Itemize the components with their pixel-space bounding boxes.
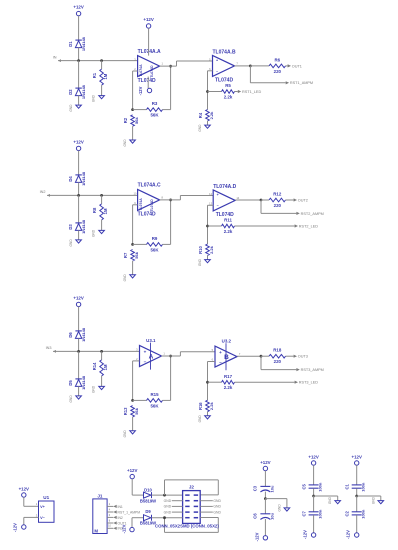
junction (C1/C2 node) bbox=[355, 495, 358, 498]
capacitor C1 100n bbox=[345, 465, 366, 496]
svg-text:1M: 1M bbox=[103, 73, 108, 79]
svg-text:D3: D3 bbox=[68, 224, 73, 230]
svg-text:A: A bbox=[149, 354, 154, 361]
power flag +12V (C3) bbox=[260, 460, 270, 471]
svg-text:100n: 100n bbox=[361, 509, 366, 519]
svg-text:V+: V+ bbox=[40, 505, 46, 509]
ground (C5/C7 node) bbox=[314, 496, 341, 504]
op-amp TL074A.C bbox=[138, 183, 161, 218]
svg-text:C6: C6 bbox=[253, 513, 258, 519]
node GND (J2 right pin 3) bbox=[200, 505, 221, 509]
wire (+12V to D10) bbox=[132, 479, 143, 495]
junction (output node TL074A.D) bbox=[260, 199, 263, 202]
svg-text:1N4148: 1N4148 bbox=[81, 327, 86, 342]
svg-text:D10: D10 bbox=[144, 487, 152, 492]
svg-text:−: − bbox=[217, 204, 219, 208]
svg-text:TL074D: TL074D bbox=[150, 199, 154, 212]
power flag +12V (U1 supply) bbox=[19, 487, 29, 498]
svg-text:RST2_LED: RST2_LED bbox=[299, 224, 318, 228]
node OUT2 bbox=[294, 198, 308, 202]
svg-text:B: B bbox=[224, 354, 229, 361]
ground (below R4) bbox=[198, 124, 210, 132]
resistor R17 2.2k bbox=[208, 374, 295, 390]
svg-text:R11: R11 bbox=[224, 218, 232, 223]
junction (R input node row 3) bbox=[100, 350, 103, 353]
power flag +12V (J2 feed) bbox=[127, 468, 137, 479]
junction (feedback node row 2) bbox=[131, 243, 134, 246]
svg-text:56k: 56k bbox=[134, 407, 139, 414]
svg-text:J2: J2 bbox=[189, 485, 195, 490]
junction (output node U3.2) bbox=[260, 355, 263, 358]
svg-text:RST_1_AMPM: RST_1_AMPM bbox=[118, 510, 141, 514]
svg-text:8: 8 bbox=[161, 195, 163, 199]
ic U1 bbox=[39, 495, 55, 522]
svg-text:R3: R3 bbox=[152, 101, 158, 106]
svg-text:RST2_AMPM: RST2_AMPM bbox=[301, 212, 324, 216]
svg-text:GND: GND bbox=[198, 124, 202, 132]
svg-text:10u: 10u bbox=[270, 512, 275, 519]
wire (top loop to J2 pin 2) bbox=[165, 480, 219, 495]
svg-text:TL074A: TL074A bbox=[139, 64, 143, 77]
svg-text:RST3_LED: RST3_LED bbox=[299, 381, 318, 385]
connector J1 bbox=[93, 493, 107, 533]
svg-text:-12V: -12V bbox=[254, 532, 259, 541]
svg-text:1M: 1M bbox=[103, 364, 108, 370]
wire (feedback to output row 1) bbox=[170, 66, 172, 110]
node input wire (row 1) bbox=[53, 55, 138, 62]
svg-text:2.2k: 2.2k bbox=[209, 111, 214, 120]
junction (LED tap row 2) bbox=[206, 225, 209, 228]
svg-text:1N4148: 1N4148 bbox=[81, 219, 86, 234]
junction (LED tap row 1) bbox=[206, 90, 209, 93]
svg-text:R15: R15 bbox=[150, 392, 159, 397]
ground (below R7) bbox=[123, 274, 135, 282]
node GND (J2 left pin 2) bbox=[164, 499, 183, 503]
ground (C3/C6 node) bbox=[265, 499, 289, 512]
svg-text:C7: C7 bbox=[302, 510, 307, 516]
ground (below R16) bbox=[198, 415, 210, 423]
pin numbers TL074A.D bbox=[209, 192, 240, 206]
wire (-12V to U1 V-) bbox=[24, 513, 39, 525]
resistor R5 2.2k bbox=[208, 83, 238, 99]
svg-text:1M: 1M bbox=[103, 208, 108, 214]
wire (feedback to output row 2) bbox=[170, 200, 172, 245]
svg-text:GND: GND bbox=[123, 274, 127, 282]
svg-text:+12V: +12V bbox=[127, 468, 137, 473]
svg-text:+12V: +12V bbox=[352, 454, 362, 459]
svg-text:D1: D1 bbox=[68, 41, 73, 47]
power flag +12V (C1) bbox=[352, 454, 362, 465]
svg-text:V−: V− bbox=[40, 516, 46, 520]
svg-text:D9: D9 bbox=[145, 509, 151, 514]
svg-text:GND: GND bbox=[92, 385, 96, 393]
svg-text:−: − bbox=[219, 360, 222, 365]
resistor R8 1M bbox=[92, 195, 108, 230]
node RST3_LED bbox=[295, 381, 319, 385]
svg-text:TL074A: TL074A bbox=[139, 198, 143, 211]
svg-text:+12V: +12V bbox=[143, 17, 153, 22]
svg-text:10: 10 bbox=[134, 191, 137, 195]
svg-text:R14: R14 bbox=[92, 362, 97, 370]
svg-text:-12V: -12V bbox=[303, 530, 308, 539]
svg-text:RST3_AMPM: RST3_AMPM bbox=[301, 368, 324, 372]
node input wire (row 2) bbox=[40, 190, 138, 197]
resistor R14 1M bbox=[92, 351, 108, 386]
op-amp TL074A.B bbox=[213, 49, 236, 83]
svg-text:C2: C2 bbox=[345, 510, 350, 516]
wire (+12V to U1 V+) bbox=[24, 497, 39, 506]
wire (inverting input TL074A.D) bbox=[208, 205, 214, 244]
ground (below R13) bbox=[123, 430, 135, 438]
wire (feedback to output row 3) bbox=[170, 356, 172, 400]
resistor R10 2.2k bbox=[198, 244, 214, 260]
svg-text:R17: R17 bbox=[224, 374, 233, 379]
svg-text:3: 3 bbox=[36, 513, 38, 517]
svg-text:R8: R8 bbox=[92, 207, 97, 213]
svg-text:RST1_AMPM: RST1_AMPM bbox=[290, 81, 313, 85]
junction (feedback node row 3) bbox=[131, 399, 134, 402]
node RST1_LED bbox=[238, 90, 262, 94]
resistor R7 56k bbox=[123, 250, 139, 275]
svg-text:56K: 56K bbox=[150, 247, 159, 252]
connector J2 pins bbox=[185, 495, 198, 518]
wire (U3.1 output to U3.2 input) bbox=[162, 352, 216, 356]
wire (TL074A.C output to TL074A.D input) bbox=[160, 196, 214, 200]
diode D3 1N4148 bbox=[68, 195, 86, 240]
wire (D9 to J2 pin 9) bbox=[152, 517, 183, 519]
svg-text:GND: GND bbox=[164, 499, 172, 503]
svg-text:IN: IN bbox=[53, 55, 57, 59]
svg-text:10u: 10u bbox=[270, 485, 275, 492]
svg-text:R6: R6 bbox=[274, 57, 280, 62]
svg-text:TL074A.A: TL074A.A bbox=[138, 49, 161, 55]
ground (C1/C2 node) bbox=[357, 496, 384, 504]
svg-text:-12V: -12V bbox=[121, 524, 126, 533]
pin numbers TL074A.C bbox=[134, 191, 164, 205]
op-amp TL074A.D bbox=[213, 184, 236, 218]
resistor R2 56k bbox=[123, 115, 139, 140]
power flag -12V (C6) bbox=[254, 532, 267, 541]
svg-text:D6: D6 bbox=[68, 332, 73, 338]
node RST1_AMPM bbox=[286, 81, 313, 85]
diode D4 1N4148 bbox=[68, 171, 86, 195]
junction (D clamp node row 3) bbox=[77, 350, 80, 353]
resistor R12 220 bbox=[261, 191, 294, 208]
power flag -12V (C7) bbox=[303, 530, 316, 539]
svg-text:GND: GND bbox=[69, 395, 73, 403]
wire (TL074A.A output to TL074A.B input) bbox=[160, 61, 213, 66]
junction (D10 node) bbox=[163, 494, 166, 497]
node GND (J2 left pin 4) bbox=[164, 510, 183, 514]
node GND (J2 right pin 4) bbox=[200, 510, 221, 514]
svg-text:−: − bbox=[144, 360, 147, 365]
svg-text:U3.1: U3.1 bbox=[146, 338, 156, 343]
ground (below R1) bbox=[92, 94, 105, 102]
svg-text:TL074D: TL074D bbox=[150, 65, 154, 78]
svg-text:10: 10 bbox=[108, 525, 111, 528]
svg-text:TL074D: TL074D bbox=[138, 212, 156, 218]
power flag -12V (op-amp U2.A supply) bbox=[138, 77, 152, 96]
wire (D10 to J2 pin 1) bbox=[152, 494, 183, 496]
node RST_1_AMPM (J1 pin 4) bbox=[107, 508, 140, 514]
svg-text:+: + bbox=[217, 193, 219, 197]
svg-text:TL074A.C: TL074A.C bbox=[138, 183, 161, 189]
resistor R18 220 bbox=[261, 348, 294, 365]
svg-text:GND: GND bbox=[92, 229, 96, 237]
junction (D9 node) bbox=[163, 516, 166, 519]
resistor R4 2.2k bbox=[198, 110, 214, 126]
op-amp TL074A.A bbox=[138, 49, 161, 84]
junction (output node TL074A.A) bbox=[169, 65, 172, 68]
svg-text:GND: GND bbox=[328, 496, 332, 504]
svg-text:IN1: IN1 bbox=[118, 505, 123, 509]
ground (below D3) bbox=[69, 239, 81, 247]
junction (C5/C7 node) bbox=[312, 495, 315, 498]
svg-text:100n: 100n bbox=[361, 482, 366, 492]
svg-text:4: 4 bbox=[109, 508, 111, 511]
power flag +12V (op-amp U2.A supply) bbox=[143, 17, 153, 56]
diode D5 1N4148 bbox=[68, 351, 86, 396]
svg-text:-12V: -12V bbox=[346, 530, 351, 539]
svg-text:CONN_05X2SMD (CONN_05X2): CONN_05X2SMD (CONN_05X2) bbox=[155, 524, 219, 529]
capacitor C2 100n bbox=[345, 496, 366, 533]
ground (below R10) bbox=[198, 258, 210, 266]
svg-text:C1: C1 bbox=[345, 483, 350, 489]
label CONN_05X2SMD bbox=[155, 524, 219, 529]
svg-text:1N4148: 1N4148 bbox=[81, 84, 86, 99]
wire (inverting input U3.2) bbox=[208, 362, 216, 401]
svg-text:GND: GND bbox=[123, 139, 127, 147]
resistor R3 56K bbox=[133, 101, 171, 118]
wire (AMPM branch row 3) bbox=[261, 356, 296, 369]
svg-text:1N4148: 1N4148 bbox=[81, 171, 86, 186]
svg-text:6: 6 bbox=[109, 514, 111, 517]
svg-text:GND: GND bbox=[198, 415, 202, 423]
svg-text:OUT3: OUT3 bbox=[298, 355, 308, 359]
svg-text:GND: GND bbox=[213, 499, 221, 503]
svg-text:R18: R18 bbox=[273, 348, 282, 353]
svg-text:7: 7 bbox=[239, 352, 241, 356]
capacitor C7 100n bbox=[302, 496, 323, 533]
ground (below D5) bbox=[69, 395, 81, 403]
pin numbers U3.1 bbox=[136, 348, 165, 362]
node RST2_LED bbox=[295, 224, 319, 228]
power flag -12V (U1 supply) bbox=[13, 523, 26, 532]
svg-text:R9: R9 bbox=[152, 236, 158, 241]
svg-text:R12: R12 bbox=[273, 191, 282, 196]
svg-text:R16: R16 bbox=[198, 402, 203, 410]
svg-text:U3.2: U3.2 bbox=[222, 339, 232, 344]
svg-text:C5: C5 bbox=[302, 483, 307, 489]
pin numbers TL074A.B bbox=[209, 57, 238, 71]
diode D6 1N4148 bbox=[68, 327, 86, 351]
power flag -12V (C2) bbox=[346, 530, 359, 539]
svg-text:R10: R10 bbox=[198, 245, 203, 253]
svg-text:220: 220 bbox=[274, 203, 282, 208]
op-amp U3.2 bbox=[215, 339, 237, 371]
junction (R input node row 1) bbox=[100, 59, 103, 62]
svg-text:OUT2: OUT2 bbox=[298, 198, 308, 202]
svg-text:M: M bbox=[94, 528, 98, 533]
svg-text:R2: R2 bbox=[123, 117, 128, 123]
svg-text:100n: 100n bbox=[318, 509, 323, 519]
svg-text:IN2: IN2 bbox=[40, 190, 46, 194]
svg-text:56k: 56k bbox=[134, 116, 139, 123]
svg-text:RST1_LED: RST1_LED bbox=[242, 90, 261, 94]
node OUT1 (J1 pin 8) bbox=[107, 519, 127, 525]
wire (inverting input TL074A.C) bbox=[133, 205, 138, 245]
junction (output node U3.1) bbox=[169, 355, 172, 358]
power flag -12V (J2 feed) bbox=[121, 518, 134, 534]
svg-text:+: + bbox=[216, 59, 218, 63]
diode D2 1N4148 bbox=[68, 61, 86, 106]
svg-text:GND: GND bbox=[164, 505, 172, 509]
svg-text:GND: GND bbox=[69, 239, 73, 247]
wire (TL074A.D output) bbox=[235, 199, 261, 201]
svg-text:TL074D: TL074D bbox=[138, 78, 156, 84]
connector J2 bbox=[183, 485, 201, 524]
svg-text:TL074A.D: TL074A.D bbox=[213, 184, 236, 190]
svg-text:7: 7 bbox=[236, 61, 238, 65]
svg-text:GND: GND bbox=[213, 510, 221, 514]
svg-text:+: + bbox=[144, 350, 147, 355]
diode D9 B5819W bbox=[132, 509, 156, 525]
svg-text:IN2: IN2 bbox=[118, 516, 123, 520]
wire (AMPM branch row 1) bbox=[250, 66, 285, 83]
resistor R11 2.2k bbox=[208, 218, 295, 234]
svg-text:D5: D5 bbox=[68, 380, 73, 386]
node input wire (row 3) bbox=[46, 346, 140, 353]
svg-text:GND: GND bbox=[164, 510, 172, 514]
svg-text:R13: R13 bbox=[123, 407, 128, 415]
resistor R15 56K bbox=[133, 392, 171, 409]
svg-text:56K: 56K bbox=[150, 403, 159, 408]
svg-text:U1: U1 bbox=[43, 495, 49, 500]
svg-text:220: 220 bbox=[274, 69, 282, 74]
svg-text:+12V: +12V bbox=[260, 460, 270, 465]
svg-text:+12V: +12V bbox=[73, 139, 83, 144]
junction (R input node row 2) bbox=[100, 194, 103, 197]
svg-text:R5: R5 bbox=[225, 83, 231, 88]
wire (inverting input TL074A.B) bbox=[208, 71, 213, 110]
pin numbers TL074A.A bbox=[134, 58, 163, 72]
svg-text:GND: GND bbox=[198, 258, 202, 266]
svg-text:2.2k: 2.2k bbox=[209, 245, 214, 254]
svg-text:+12V: +12V bbox=[308, 454, 318, 459]
svg-text:GND: GND bbox=[371, 496, 375, 504]
svg-text:100n: 100n bbox=[318, 482, 323, 492]
power flag +12V (row 3 input clamp) bbox=[73, 295, 83, 331]
svg-text:220: 220 bbox=[274, 359, 282, 364]
svg-text:−: − bbox=[216, 69, 218, 73]
svg-text:GND: GND bbox=[213, 505, 221, 509]
svg-text:2.2k: 2.2k bbox=[209, 402, 214, 411]
svg-text:TL074A.B: TL074A.B bbox=[213, 49, 236, 55]
svg-text:2: 2 bbox=[109, 503, 111, 506]
svg-text:D4: D4 bbox=[68, 176, 73, 182]
node RST2_AMPM bbox=[296, 212, 323, 216]
svg-text:2.2k: 2.2k bbox=[224, 229, 233, 234]
svg-text:IN3: IN3 bbox=[46, 346, 52, 350]
svg-text:-12V: -12V bbox=[138, 86, 143, 95]
svg-text:1: 1 bbox=[36, 502, 38, 506]
svg-text:-12V: -12V bbox=[13, 523, 18, 532]
resistor R9 56K bbox=[133, 236, 171, 253]
svg-text:56K: 56K bbox=[150, 113, 159, 118]
svg-text:8: 8 bbox=[109, 519, 111, 522]
svg-text:R1: R1 bbox=[92, 72, 97, 78]
wire (inverting input U3.1) bbox=[133, 361, 140, 401]
svg-text:1: 1 bbox=[163, 351, 165, 355]
resistor R6 220 bbox=[250, 57, 287, 74]
node IN2 (J1 pin 6) bbox=[107, 514, 123, 520]
svg-text:J1: J1 bbox=[97, 493, 103, 498]
junction (C3/C6 node) bbox=[264, 497, 267, 500]
capacitor C3 10u bbox=[253, 471, 275, 499]
svg-text:+12V: +12V bbox=[19, 487, 29, 492]
power flag +12V (row 1 input clamp) bbox=[73, 5, 83, 41]
node GND (J2 right pin 2) bbox=[200, 499, 221, 503]
power flag +12V (row 2 input clamp) bbox=[73, 139, 83, 175]
node IN3 (J1 pin 10) bbox=[107, 525, 123, 531]
ground (below R14) bbox=[92, 385, 105, 393]
wire (U3.2 output) bbox=[237, 355, 261, 357]
wire (bottom loop to J2 pin 10) bbox=[165, 518, 219, 533]
wire (AMPM branch row 2) bbox=[261, 200, 296, 213]
junction (D clamp node row 1) bbox=[77, 59, 80, 62]
wire (inverting input TL074A.A) bbox=[133, 71, 138, 110]
junction (D clamp node row 2) bbox=[77, 194, 80, 197]
svg-text:1: 1 bbox=[161, 62, 163, 66]
power flag +12V (C5) bbox=[308, 454, 318, 465]
svg-text:GND: GND bbox=[92, 94, 96, 102]
svg-text:2.2k: 2.2k bbox=[224, 94, 233, 99]
svg-text:D2: D2 bbox=[68, 89, 73, 95]
node IN1 (J1 pin 2) bbox=[107, 503, 123, 509]
node RST3_AMPM bbox=[296, 368, 323, 372]
svg-text:OUT1: OUT1 bbox=[292, 64, 302, 68]
svg-text:1N4148: 1N4148 bbox=[81, 375, 86, 390]
junction (feedback node row 1) bbox=[131, 108, 134, 111]
svg-text:R7: R7 bbox=[123, 252, 128, 258]
ground (below D2) bbox=[69, 104, 81, 112]
svg-text:GND: GND bbox=[277, 504, 281, 512]
svg-text:1N4148: 1N4148 bbox=[81, 36, 86, 51]
node OUT3 bbox=[294, 355, 308, 359]
svg-text:+12V: +12V bbox=[73, 5, 83, 10]
resistor R13 56k bbox=[123, 406, 139, 431]
svg-text:R4: R4 bbox=[198, 112, 203, 118]
resistor R16 2.2k bbox=[198, 400, 214, 416]
svg-text:+12V: +12V bbox=[73, 295, 83, 300]
node GND (J2 left pin 3) bbox=[164, 505, 183, 509]
svg-text:2.2k: 2.2k bbox=[224, 385, 233, 390]
junction (output node TL074A.B) bbox=[249, 65, 252, 68]
svg-text:B5819W: B5819W bbox=[140, 521, 156, 526]
capacitor C6 10u bbox=[253, 499, 275, 536]
svg-text:+: + bbox=[219, 350, 222, 355]
junction (output node TL074A.C) bbox=[169, 199, 172, 202]
ground (below R2) bbox=[123, 139, 135, 147]
wire (TL074A.B output) bbox=[235, 65, 251, 67]
pin numbers U3.2 bbox=[212, 348, 241, 362]
svg-text:56k: 56k bbox=[134, 251, 139, 258]
capacitor C5 100n bbox=[302, 465, 323, 496]
junction (LED tap row 3) bbox=[206, 381, 209, 384]
diode D10 B5819W bbox=[140, 487, 156, 503]
resistor R1 1M bbox=[92, 61, 108, 96]
diode D1 1N4148 bbox=[68, 36, 86, 60]
